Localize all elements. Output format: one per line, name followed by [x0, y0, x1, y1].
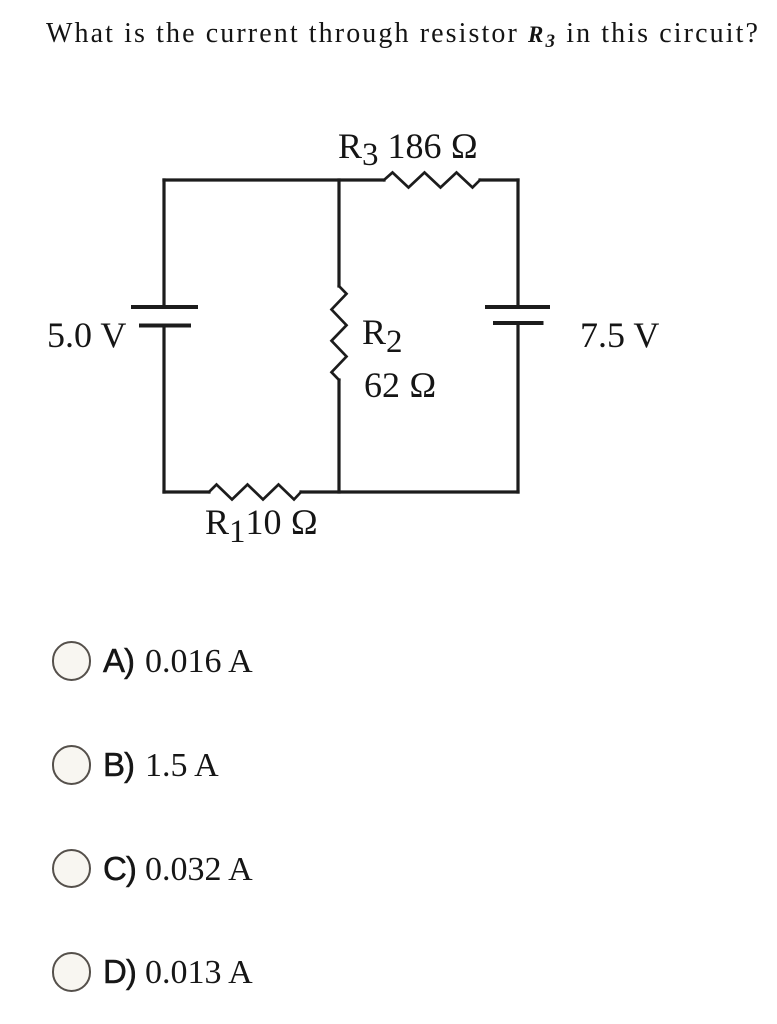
letter D [103, 951, 136, 993]
wire: right vertical upper (corner to battery B2) [516, 180, 519, 307]
wire: bottom-left segment (corner to R1) [164, 490, 209, 493]
wire: bottom middle segment (R1 to middle junction and right corner) [301, 490, 518, 493]
option B row [50, 745, 52, 787]
radio C [52, 849, 92, 889]
value A [145, 641, 253, 683]
svg-text:5.0 V: 5.0 V [47, 315, 126, 355]
resistor R2 zigzag [332, 286, 347, 380]
radio D [52, 952, 92, 992]
value C [145, 849, 253, 891]
svg-text:R3 186 Ω: R3 186 Ω [338, 126, 478, 173]
resistor R1 zigzag [209, 485, 301, 500]
option D row [50, 952, 52, 994]
wire: left vertical upper (corner to battery B1 top plate) [162, 180, 165, 307]
letter B [103, 744, 134, 786]
svg-text:62 Ω: 62 Ω [364, 365, 437, 405]
resistor R3 zigzag [384, 173, 480, 188]
battery B1 long plate (5.0 V, positive) [131, 305, 198, 309]
value B [145, 745, 219, 787]
radio B [52, 745, 92, 785]
letter A [103, 640, 134, 682]
battery B2 short plate (negative) [493, 321, 544, 325]
wire: left vertical lower (battery B1 to bottom-left corner) [162, 326, 165, 493]
value D [145, 952, 253, 994]
svg-text:R2: R2 [362, 312, 403, 360]
svg-text:R110 Ω: R110 Ω [205, 502, 318, 550]
battery B1 short plate (negative) [139, 324, 191, 328]
wire: right vertical lower (battery B2 to bottom-right corner) [516, 323, 519, 492]
wire: top-left horizontal segment (node top, left corner to R3) [164, 178, 384, 181]
radio A [52, 641, 92, 681]
wire: top-right segment (R3 to right corner) [480, 178, 518, 181]
option C row [50, 849, 52, 891]
battery B2 long plate (7.5 V, positive) [485, 305, 550, 309]
wire: middle vertical lower (R2 to bottom node) [337, 380, 340, 492]
wire: middle vertical upper (top node to R2) [337, 180, 340, 286]
letter C [103, 848, 136, 890]
option A row [50, 641, 52, 683]
svg-text:7.5 V: 7.5 V [580, 315, 659, 355]
question title [46, 18, 777, 50]
